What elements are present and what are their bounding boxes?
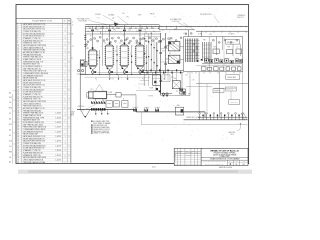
svg-text:1-1/2 IN: 1-1/2 IN: [56, 150, 61, 152]
riser to vessel T-4: [139, 25, 141, 45]
inter-vessel piping: [99, 50, 101, 75]
svg-text:B: B: [69, 127, 70, 129]
svg-text:PRV-2: PRV-2: [174, 29, 178, 31]
left margin small texts: [71, 34, 74, 60]
sloped drain line: [81, 99, 107, 112]
svg-text:2 IN: 2 IN: [209, 34, 211, 36]
svg-text:B: B: [69, 117, 70, 119]
svg-text:TO HTG: TO HTG: [148, 96, 153, 98]
header band marks: [89, 28, 92, 29]
pump cluster lower mid: [179, 88, 182, 91]
svg-text:53: 53: [17, 145, 19, 147]
svg-text:12: 12: [17, 50, 19, 52]
drain arrows: [95, 109, 97, 113]
svg-text:PUMP PIT: PUMP PIT: [214, 91, 220, 93]
flow arrow flag: [114, 22, 119, 26]
enclosure small heaters: [213, 49, 219, 54]
svg-text:20: 20: [17, 68, 19, 70]
svg-text:15: 15: [17, 57, 19, 59]
svg-text:VENT: VENT: [138, 14, 142, 16]
riser to vessel T-1: [92, 26, 94, 49]
enclosure divider 1: [208, 37, 210, 72]
revision section grid: [174, 148, 201, 165]
svg-text:2: 2: [230, 162, 232, 166]
svg-text:13: 13: [17, 52, 19, 54]
svg-text:37: 37: [17, 108, 19, 110]
stepped pipe: [160, 85, 172, 93]
vessel outlet assemblies: [89, 67, 96, 75]
svg-text:SEE DWG 4 CONTROLS: SEE DWG 4 CONTROLS: [93, 131, 109, 133]
svg-text:B: B: [69, 24, 70, 26]
svg-text:51: 51: [17, 141, 19, 143]
right area cross line: [196, 83, 248, 85]
svg-text:2-1/2: 2-1/2: [128, 30, 131, 32]
svg-text:24: 24: [17, 78, 19, 80]
svg-text:B: B: [69, 155, 70, 157]
svg-text:RELIEF VENTS TO ROOF: RELIEF VENTS TO ROOF: [93, 129, 109, 131]
valve cluster row: [91, 101, 93, 104]
equipment table outline: [70, 19, 72, 164]
steam header upper line: [85, 24, 159, 26]
heat exchanger E-1: [168, 42, 180, 51]
svg-text:36: 36: [236, 164, 238, 166]
svg-text:42: 42: [17, 120, 19, 122]
svg-text:39: 39: [17, 113, 19, 115]
second header line: [85, 30, 160, 32]
scale note: [70, 110, 75, 117]
svg-text:B: B: [69, 71, 70, 73]
mid band cross stubs: [145, 35, 161, 37]
right area vertical 1: [198, 72, 200, 112]
svg-text:REHAB. OF LIST OF BLDG. 25: REHAB. OF LIST OF BLDG. 25: [210, 149, 239, 152]
svg-text:1-1/2 IN: 1-1/2 IN: [56, 155, 61, 157]
svg-text:EQUIPMENT LIST: EQUIPMENT LIST: [33, 21, 53, 23]
svg-text:34: 34: [17, 101, 19, 103]
reference leader curve: [237, 123, 241, 131]
svg-text:15 PSI: 15 PSI: [198, 34, 203, 36]
svg-text:36-22: 36-22: [152, 167, 156, 169]
flash drum outer box: [89, 91, 107, 99]
main condensate line east: [184, 119, 248, 121]
svg-text:E-2: E-2: [169, 53, 171, 55]
mid small verticals band: [148, 33, 150, 70]
svg-text:1-1/2 IN: 1-1/2 IN: [56, 122, 61, 124]
vessel tag labels: [87, 39, 171, 80]
title lower cell text: [203, 160, 246, 165]
svg-text:DESCR: DESCR: [178, 150, 182, 152]
drop to return line: [140, 112, 142, 125]
svg-text:49: 49: [17, 136, 19, 138]
svg-text:2 IN: 2 IN: [126, 17, 128, 19]
sheet background: [0, 0, 260, 176]
svg-text:59: 59: [17, 159, 19, 161]
svg-text:1-1/2 IN: 1-1/2 IN: [56, 159, 61, 161]
svg-text:10: 10: [17, 45, 19, 47]
lower header segment: [85, 33, 160, 35]
svg-text:1-1/2 IN: 1-1/2 IN: [56, 141, 61, 143]
manifold end caps: [100, 31, 102, 34]
svg-text:1-1/2 IN: 1-1/2 IN: [56, 127, 61, 129]
left boundary pipe upper: [84, 26, 86, 74]
east small diagonal marks: [241, 113, 245, 120]
svg-text:B: B: [69, 43, 70, 45]
enclosure lower connections: [202, 63, 242, 65]
svg-text:11: 11: [17, 47, 19, 49]
svg-text:B-1: B-1: [9, 93, 11, 95]
revision section text: [175, 150, 198, 162]
long vertical pipe B: [165, 33, 167, 73]
svg-text:P-4: P-4: [142, 78, 144, 80]
enclosure mid labels: [203, 40, 238, 59]
header branch stubs: [96, 26, 98, 29]
right area line B: [186, 86, 212, 88]
label leader lines: [89, 20, 112, 25]
riser valves: [92, 47, 94, 49]
svg-text:2 IN: 2 IN: [143, 110, 145, 112]
exchanger stubs: [166, 45, 169, 47]
enclosure cluster blobs: [206, 60, 207, 62]
title block outer box: [174, 148, 248, 165]
main condensate line mid: [136, 111, 205, 113]
svg-text:31: 31: [17, 94, 19, 96]
svg-text:V-2: V-2: [136, 31, 138, 33]
svg-text:35: 35: [17, 103, 19, 105]
svg-text:16: 16: [17, 59, 19, 61]
svg-text:M: M: [123, 99, 124, 101]
svg-text:METER NO 2: METER NO 2: [230, 102, 238, 104]
svg-text:HTG: HTG: [9, 152, 12, 154]
enclosure coil bank A: [185, 39, 200, 63]
svg-text:18: 18: [17, 64, 19, 66]
svg-text:HTG: HTG: [9, 108, 12, 110]
svg-text:6 IN: 6 IN: [71, 34, 73, 36]
svg-text:PRV-1: PRV-1: [96, 30, 100, 32]
svg-text:T-1: T-1: [87, 48, 89, 50]
svg-text:3/4: 3/4: [154, 16, 156, 18]
svg-text:P-5: P-5: [176, 91, 178, 93]
receiver lower knot: [156, 88, 158, 90]
title rule lower: [201, 159, 248, 161]
mid band small marks: [140, 80, 149, 82]
svg-text:26: 26: [17, 82, 19, 84]
svg-text:V-1: V-1: [98, 17, 100, 19]
right area small verticals: [230, 91, 232, 100]
mid texture labels: [86, 29, 234, 50]
svg-text:32: 32: [17, 96, 19, 98]
title sub text: [213, 152, 237, 158]
svg-text:33: 33: [17, 99, 19, 101]
svg-text:P-3: P-3: [127, 78, 129, 80]
svg-text:6 IN: 6 IN: [162, 51, 164, 53]
riser bowtie valves: [91, 29, 94, 31]
heat exchanger E-2: [168, 55, 180, 63]
svg-text:14: 14: [17, 54, 19, 56]
svg-text:19: 19: [17, 66, 19, 68]
svg-text:4 IN COND: 4 IN COND: [78, 106, 85, 108]
svg-text:27: 27: [17, 85, 19, 87]
enclosure pump cluster: [204, 59, 208, 62]
svg-text:47: 47: [17, 131, 19, 133]
east fitting line upper: [198, 116, 248, 118]
svg-text:3 IN: 3 IN: [122, 13, 124, 15]
scan speckle: [17, 8, 247, 162]
instrument bubbles: [94, 37, 96, 39]
svg-text:25-2: 25-2: [9, 97, 12, 99]
vessel T-4: [135, 43, 145, 66]
riser to vessel T-2: [109, 25, 111, 45]
valve sets on mid line: [133, 107, 138, 112]
svg-text:48: 48: [17, 134, 19, 136]
svg-text:40: 40: [17, 115, 19, 117]
svg-text:V-1: V-1: [9, 135, 11, 137]
svg-text:FT-1: FT-1: [91, 89, 94, 91]
svg-text:N-2: N-2: [243, 164, 246, 166]
right label box 2: [213, 89, 224, 93]
svg-text:LC: LC: [148, 43, 150, 45]
svg-text:3 IN: 3 IN: [144, 29, 146, 31]
svg-text:T-2: T-2: [104, 43, 106, 45]
svg-text:B: B: [69, 108, 70, 110]
svg-text:B-2: B-2: [9, 162, 11, 164]
svg-text:PR: PR: [112, 18, 114, 20]
enclosure divider 2: [223, 37, 225, 72]
svg-text:PRESSURE GAUGE 4 IN DIAL: PRESSURE GAUGE 4 IN DIAL: [23, 161, 46, 164]
svg-text:B: B: [69, 61, 70, 63]
svg-text:36: 36: [17, 106, 19, 108]
svg-text:NONE: NONE: [70, 113, 74, 115]
left pump pair: [77, 69, 79, 71]
svg-text:NO 4: NO 4: [230, 134, 233, 136]
svg-text:B: B: [69, 80, 70, 82]
svg-text:N 2-2: N 2-2: [70, 115, 74, 117]
svg-text:DWG: DWG: [235, 161, 238, 163]
svg-text:B: B: [69, 89, 70, 91]
mid verticals: [143, 73, 145, 87]
svg-text:25: 25: [17, 80, 19, 82]
svg-text:NO: NO: [175, 152, 177, 154]
svg-text:25-3: 25-3: [9, 141, 12, 143]
vessel T-3: [119, 43, 129, 66]
meter box on mid line: [175, 107, 183, 115]
manifold lower faint line: [84, 76, 150, 78]
svg-text:EXIST 6 IN: EXIST 6 IN: [227, 89, 233, 91]
border frame: [16, 5, 249, 164]
svg-text:GPM: GPM: [177, 105, 180, 107]
svg-text:S-2: S-2: [9, 130, 11, 132]
svg-text:21: 21: [17, 71, 19, 73]
svg-text:1-1/2: 1-1/2: [183, 33, 186, 35]
svg-text:B-4: B-4: [9, 119, 11, 121]
right label box 1: [226, 75, 240, 80]
svg-text:17: 17: [17, 61, 19, 63]
svg-text:56: 56: [17, 152, 19, 154]
tall light box mid: [162, 75, 170, 82]
mid band line2: [136, 90, 161, 92]
svg-text:1-1/2: 1-1/2: [185, 74, 188, 76]
notes legend: [91, 120, 110, 135]
svg-text:HTR NO 1-2: HTR NO 1-2: [227, 42, 235, 44]
right area vertical 2: [218, 72, 220, 118]
svg-text:NO: NO: [64, 21, 66, 23]
svg-text:41: 41: [17, 117, 19, 119]
drum drain drops: [95, 99, 97, 102]
svg-text:HTR: HTR: [214, 46, 217, 48]
svg-text:44: 44: [17, 124, 19, 126]
svg-text:CP: CP: [163, 79, 165, 81]
right label box B: [226, 87, 237, 91]
svg-text:60: 60: [17, 162, 19, 164]
paper bottom edge shadow: [18, 170, 252, 174]
manifold upper line: [98, 71, 161, 73]
enclosure feed pipes: [216, 37, 218, 55]
svg-text:2 IN: 2 IN: [96, 55, 98, 57]
svg-text:PUMP: PUMP: [108, 92, 112, 94]
boiler house roof outline: [95, 84, 99, 91]
svg-text:46: 46: [17, 129, 19, 131]
bottom manifold line: [80, 74, 161, 76]
enclosure top label box: [226, 40, 240, 44]
left boundary flange marks: [84, 35, 86, 37]
svg-text:23: 23: [17, 75, 19, 77]
drum outlet piping: [107, 94, 116, 96]
vertical pipe valves: [160, 40, 162, 42]
line step: [135, 109, 137, 112]
vessel T-2: [105, 43, 115, 66]
svg-text:1-1/2 IN: 1-1/2 IN: [56, 117, 61, 119]
flash drum inner shell: [93, 92, 106, 98]
svg-text:2-1: 2-1: [9, 113, 11, 115]
main condensate line west: [77, 108, 136, 110]
third header line: [85, 28, 159, 30]
equipment room enclosure: [184, 37, 243, 72]
pump circles mid: [162, 93, 164, 95]
svg-text:28: 28: [17, 87, 19, 89]
svg-text:45: 45: [17, 127, 19, 129]
loop seal dip: [80, 109, 90, 117]
east line drop: [204, 112, 206, 117]
svg-text:1-1/2 IN: 1-1/2 IN: [56, 145, 61, 147]
svg-text:29: 29: [17, 89, 19, 91]
svg-text:B: B: [69, 33, 70, 35]
svg-text:C-4: C-4: [9, 146, 11, 148]
svg-text:6 IN HDR: 6 IN HDR: [95, 14, 101, 16]
cross line valves: [143, 69, 144, 71]
manifold down arrows: [109, 75, 111, 79]
side equipment left of T-1: [81, 61, 84, 67]
svg-text:30: 30: [17, 92, 19, 94]
svg-text:1-1/2 IN: 1-1/2 IN: [56, 136, 61, 138]
svg-text:T-3: T-3: [119, 43, 121, 45]
lower mid extra labels: [145, 71, 194, 93]
svg-text:FM: FM: [174, 78, 176, 80]
mid band extra verticals: [148, 70, 150, 86]
header jog: [158, 25, 160, 30]
svg-text:RELIEF: RELIEF: [150, 13, 155, 15]
svg-text:2 IN: 2 IN: [115, 51, 117, 53]
svg-text:V-3: V-3: [153, 31, 155, 33]
junction dots: [99, 74, 100, 75]
svg-text:SEE DWG: SEE DWG: [229, 132, 236, 134]
svg-text:58: 58: [17, 157, 19, 159]
svg-text:P-1: P-1: [95, 78, 97, 80]
svg-text:38: 38: [17, 110, 19, 112]
valve blobs on west line: [91, 108, 93, 110]
svg-text:FILE: FILE: [243, 161, 246, 163]
cross line A: [140, 69, 184, 71]
svg-text:1-1/2 IN: 1-1/2 IN: [56, 131, 61, 133]
inter-vessel small marks: [116, 54, 117, 55]
condensate meter box: [172, 81, 180, 89]
vessel T-1: [88, 48, 98, 66]
svg-text:P-2: P-2: [112, 78, 114, 80]
svg-text:N: N: [72, 24, 73, 26]
title lower cells: [228, 160, 249, 165]
svg-text:RCVR: RCVR: [150, 87, 154, 89]
svg-text:4 IN: 4 IN: [113, 29, 115, 31]
header tick fittings: [88, 26, 90, 28]
svg-text:BY: BY: [191, 152, 193, 154]
svg-text:1-1/2 IN: 1-1/2 IN: [56, 113, 61, 115]
svg-text:PRV: PRV: [203, 40, 206, 42]
svg-text:T-4: T-4: [135, 43, 137, 45]
svg-text:HTR: HTR: [227, 46, 230, 48]
svg-text:V-1: V-1: [71, 57, 73, 59]
enclosure bottom stubs: [187, 72, 189, 74]
svg-text:6-12: 6-12: [178, 154, 181, 156]
right area line C: [214, 87, 236, 89]
meter boxes row: [106, 101, 112, 108]
svg-text:CHG: CHG: [192, 150, 195, 152]
svg-text:2 IN: 2 IN: [188, 94, 190, 96]
enclosure coil bank B: [202, 42, 211, 61]
lower mid line: [175, 95, 190, 97]
enclosure right edge extension: [242, 72, 244, 120]
svg-text:E-1: E-1: [169, 39, 171, 41]
svg-text:TO UNITS: TO UNITS: [228, 34, 234, 36]
svg-text:B: B: [69, 136, 70, 138]
svg-text:CV: CV: [236, 46, 238, 48]
receiver tank box: [153, 75, 161, 85]
return line faint: [141, 124, 247, 126]
svg-text:2 IN: 2 IN: [192, 79, 194, 81]
table group label column: [12, 94, 14, 164]
riser to vessel T-3: [123, 25, 125, 45]
svg-text:DWG NO 3: DWG NO 3: [237, 17, 244, 19]
east fittings cluster: [199, 114, 201, 119]
svg-text:55: 55: [17, 150, 19, 152]
svg-text:B: B: [175, 156, 176, 158]
table rows: [16, 23, 71, 164]
svg-text:50: 50: [17, 138, 19, 140]
long vertical pipe A: [160, 33, 162, 95]
right label box 3: [229, 100, 240, 105]
svg-text:2 IN: 2 IN: [155, 110, 157, 112]
svg-text:B: B: [69, 99, 70, 101]
svg-text:26-1: 26-1: [9, 124, 12, 126]
svg-text:B: B: [69, 52, 70, 54]
title rule upper: [201, 157, 248, 159]
drum left chamber: [89, 92, 93, 98]
svg-text:C-2: C-2: [9, 102, 11, 104]
svg-text:54: 54: [17, 148, 19, 150]
svg-text:2-6: 2-6: [9, 157, 11, 159]
svg-text:22: 22: [17, 73, 19, 75]
svg-text:43: 43: [17, 122, 19, 124]
svg-text:57: 57: [17, 155, 19, 157]
cross line B: [140, 72, 184, 74]
right header segment: [196, 30, 248, 32]
svg-text:52: 52: [17, 143, 19, 145]
